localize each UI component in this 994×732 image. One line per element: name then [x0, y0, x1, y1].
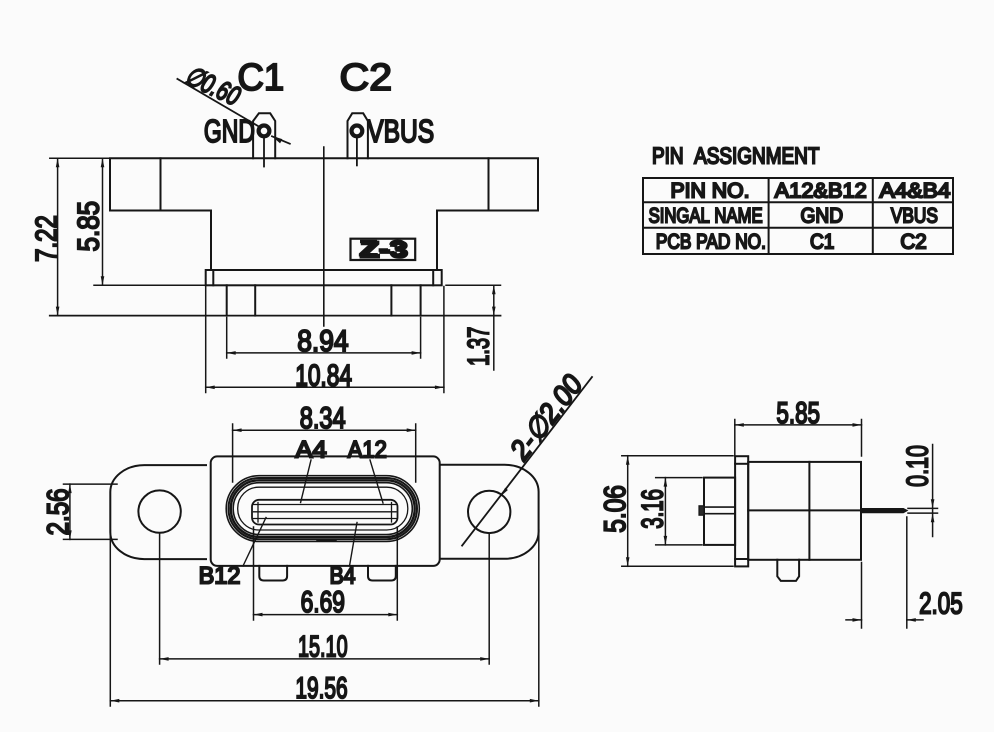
svg-text:5.06: 5.06 — [599, 485, 632, 533]
right mounting hole — [468, 491, 510, 533]
svg-text:A12: A12 — [348, 437, 387, 464]
receptacle seal ring outline 4 — [233, 483, 412, 535]
dimension 2.05 — [846, 517, 923, 628]
PCB reference line — [50, 315, 501, 317]
dimension 5.85 (side) — [735, 420, 862, 457]
dimension 3.16 — [656, 478, 702, 545]
svg-text:GND: GND — [801, 205, 844, 228]
svg-text:PCB PAD NO.: PCB PAD NO. — [656, 230, 766, 253]
dimension 0.10 — [908, 445, 938, 537]
svg-text:2.05: 2.05 — [919, 588, 963, 621]
connector body (side view) — [748, 462, 861, 560]
svg-text:A4&B4: A4&B4 — [880, 180, 951, 203]
dimension 8.34 — [233, 424, 416, 482]
svg-text:C2: C2 — [340, 57, 393, 99]
svg-text:∅0.60: ∅0.60 — [180, 60, 244, 111]
svg-text:7.22: 7.22 — [30, 215, 63, 262]
leader 2-diameter 2.00 — [462, 377, 592, 546]
left mounting flange — [110, 465, 206, 559]
label B12 with leader — [199, 518, 266, 590]
left foot (top view) — [259, 566, 287, 581]
svg-text:2-∅2.00: 2-∅2.00 — [504, 369, 590, 467]
svg-text:3.16: 3.16 — [636, 489, 669, 529]
svg-text:PIN NO.: PIN NO. — [671, 180, 750, 203]
through-hole pin (side view) — [861, 508, 908, 513]
svg-text:PIN ASSIGNMENT: PIN ASSIGNMENT — [652, 143, 819, 169]
left mounting hole — [138, 490, 180, 532]
dimension 5.85 (front) — [94, 158, 206, 285]
svg-text:VBUS: VBUS — [891, 205, 938, 228]
BOTTOM VIEW — [42, 369, 592, 706]
solder pin C1 (front view) — [253, 113, 275, 166]
svg-text:C1: C1 — [237, 57, 284, 99]
base plate (front view) — [206, 270, 442, 285]
svg-text:C1: C1 — [810, 230, 834, 253]
dimension 15.10 — [160, 534, 490, 664]
dimension 2.56 — [64, 484, 118, 539]
dimension 19.56 — [110, 530, 539, 706]
vertical centerline (front view) — [323, 147, 325, 326]
receptacle cavity outline — [238, 487, 408, 530]
label A12 with leader — [348, 437, 387, 504]
svg-text:8.34: 8.34 — [300, 402, 346, 435]
dimension 1.37 — [446, 285, 501, 370]
TABLE — [643, 143, 953, 254]
svg-text:VBUS: VBUS — [367, 113, 434, 149]
contact tongue — [252, 500, 398, 525]
tongue profile (side view) — [699, 506, 735, 515]
svg-text:6.69: 6.69 — [301, 586, 345, 619]
Z-3 logo plate — [351, 235, 416, 263]
label A4 with leader — [295, 437, 326, 503]
right mounting flange — [440, 465, 539, 559]
receptacle nose (side view) — [704, 478, 735, 545]
svg-text:10.84: 10.84 — [295, 360, 352, 393]
dimension 8.94 — [227, 318, 421, 359]
SIDE VIEW — [599, 397, 963, 628]
svg-text:C2: C2 — [900, 230, 926, 253]
dimension 10.84 — [206, 287, 444, 393]
svg-text:SINGAL NAME: SINGAL NAME — [649, 205, 763, 228]
svg-text:8.94: 8.94 — [297, 325, 348, 358]
svg-text:5.85: 5.85 — [73, 201, 106, 252]
connector body outline (front view) — [110, 158, 538, 270]
svg-text:GND: GND — [204, 113, 255, 149]
receptacle seal ring outline 2 — [229, 478, 418, 539]
label B4 with leader — [329, 523, 357, 590]
svg-text:1.37: 1.37 — [462, 327, 495, 366]
svg-text:19.56: 19.56 — [295, 672, 347, 705]
lower housing and feet (front view) — [227, 285, 421, 315]
dimension 7.22 — [50, 158, 110, 315]
dimension 5.06 — [622, 456, 733, 567]
svg-text:15.10: 15.10 — [298, 630, 348, 663]
svg-text:0.10: 0.10 — [901, 445, 934, 487]
FRONT VIEW — [30, 57, 538, 393]
svg-text:5.85: 5.85 — [776, 397, 820, 430]
seam tick below receptacle — [317, 540, 336, 542]
svg-text:2.56: 2.56 — [42, 488, 75, 535]
svg-text:A12&B12: A12&B12 — [775, 180, 867, 203]
solder pin C2 (front view) — [348, 113, 368, 165]
receptacle seal ring outline 1 — [226, 476, 419, 542]
right foot (top view) — [368, 566, 396, 581]
connector housing (top view) — [211, 456, 440, 566]
dimension 6.69 — [254, 527, 398, 620]
solder foot (side view) — [777, 560, 799, 581]
svg-text:Z-3: Z-3 — [359, 235, 407, 261]
svg-text:B12: B12 — [199, 562, 241, 589]
receptacle seal ring outline 3 — [231, 480, 415, 537]
leader line for hole diameter 0.60 — [177, 79, 289, 144]
mounting plate (side view) — [735, 456, 748, 566]
pin assignment table grid — [643, 178, 953, 254]
